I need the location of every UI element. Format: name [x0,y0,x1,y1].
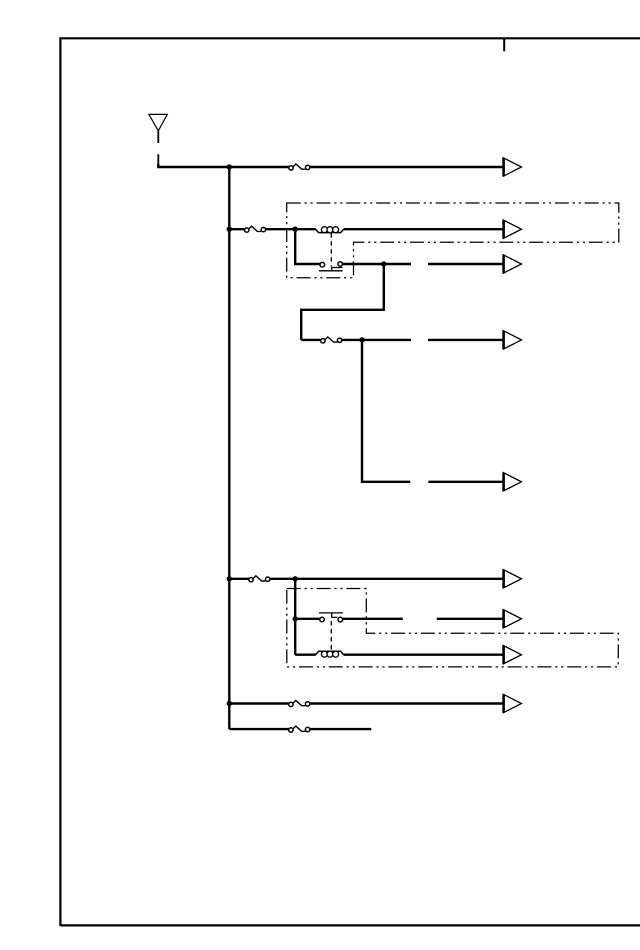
junction: relay K2 feed node [293,576,298,581]
junction: relay K2 contact node [293,616,298,621]
inline connector J6 (branch 10) [289,726,310,732]
inline connector J2 (relay K1 feed) [245,226,266,232]
junction: relay K1 feed node [293,227,298,232]
connector arrow 9 [503,694,521,712]
wire: branch 4 lead [301,339,321,341]
connector arrow 8 [503,646,521,664]
relay K1 coil [316,227,344,233]
wire: branch 1 (bus to connector, connector to arrow) [229,166,503,168]
wire: relay K2 coil line [295,654,503,656]
wire: harness resume to arrow 3 [428,263,503,265]
wire: branch 10 (bus bottom elbow) [229,728,371,730]
wire: branch 5 resume to arrow 5 [428,481,503,483]
antenna [149,114,167,166]
wire: branch 9 [229,702,503,704]
wire: contact 2 line left [295,618,320,620]
connector arrow 5 [503,473,521,491]
relay K1 contact [319,262,343,271]
relay K2 enclosure (phantom outline) [287,589,619,667]
wire: drop to branch 5 and lead [362,340,410,482]
wire: resume to arrow 7 [437,618,504,620]
inline connector J5 (branch 9) [289,701,310,707]
relay K1 actuator link (dashed) [330,233,332,266]
wire: relay K1 feed drop to contact [295,229,320,264]
inline connector J3 (branch 4) [321,337,342,343]
relay K2 coil [316,651,344,657]
connector arrow 4 [503,331,521,349]
wire: relay K1 coil line [295,228,503,230]
junction: branch 4/5 node [359,337,364,342]
wire: antenna feed [157,164,229,167]
wire: connector J2 to relay K1 node [266,228,296,230]
inline connector J1 (branch 1) [289,164,310,170]
wire: contact to harness break [343,263,412,265]
relay K2 actuator link (dashed) [330,621,332,650]
wire: branch 4 to harness break [342,339,411,341]
wire: bus to connector J2 [229,228,245,230]
wire: relay K2 feed drop [294,579,296,655]
connector arrow 7 [503,610,521,628]
connector arrow 1 [503,158,521,176]
wire: connector J4 to arrow 6 [270,578,504,580]
junction: contact branch node [381,261,386,266]
junction: bus / relay K1 branch [227,227,232,232]
wire: contact 2 to harness break [343,618,403,620]
relay K2 contact [319,613,343,622]
wire: bus to connector J4 [229,578,249,580]
junction: bus / relay K2 branch [227,576,232,581]
wire: jog from contact node down to branch 4 [301,264,384,340]
connector arrow 2 [503,220,521,238]
wire: main vertical bus [228,167,230,729]
connector arrow 3 [503,255,521,273]
junction: bus top node [227,164,232,169]
relay K1 enclosure (phantom outline) [287,203,619,278]
connector arrow 6 [503,570,521,588]
junction: bus / branch 9 [227,701,232,706]
wire: branch 4 resume to arrow 4 [428,339,503,341]
inline connector J4 (relay K2 feed) [249,576,270,582]
